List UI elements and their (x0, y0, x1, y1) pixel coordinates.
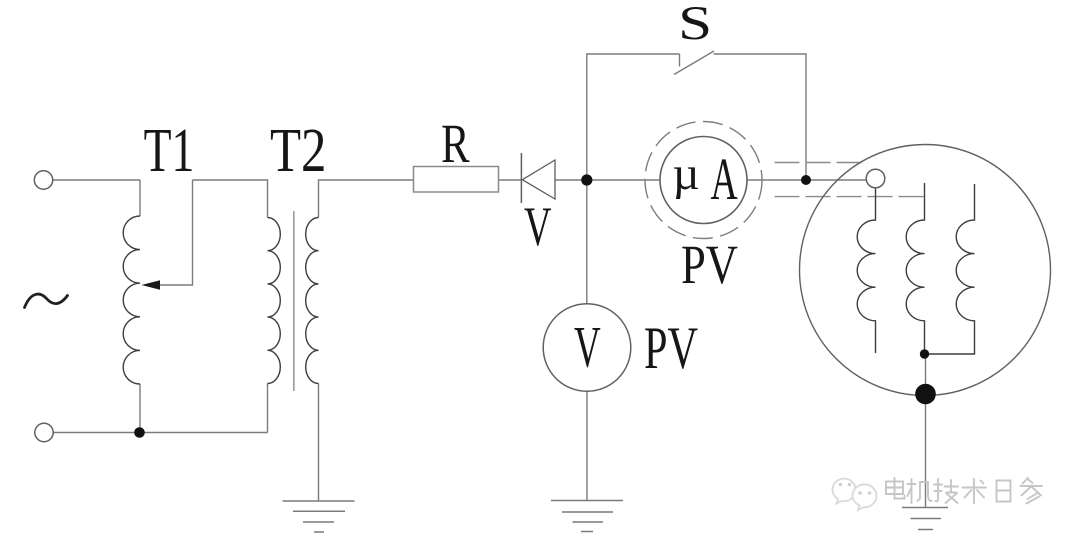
svg-text:T1: T1 (144, 115, 195, 185)
svg-text:PV: PV (644, 315, 698, 382)
svg-text:S: S (678, 0, 712, 50)
svg-text:A: A (711, 146, 738, 212)
svg-text:V: V (524, 196, 552, 258)
svg-text:V: V (574, 315, 601, 380)
svg-text:µ: µ (673, 148, 700, 200)
svg-text:T2: T2 (270, 115, 326, 185)
svg-text:R: R (441, 113, 470, 174)
svg-text:PV: PV (681, 234, 738, 295)
